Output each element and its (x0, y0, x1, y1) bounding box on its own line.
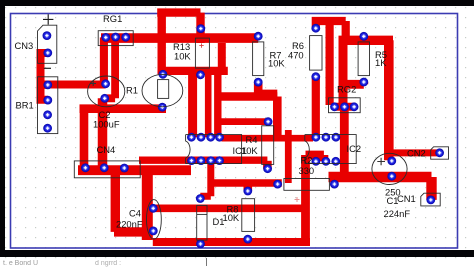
diode D1 outline (197, 205, 207, 240)
bridge BR1 outline (38, 77, 58, 134)
pad R4-2 (263, 164, 272, 173)
connector CN4 body (74, 161, 140, 178)
pad R5-1 (359, 32, 368, 41)
pad R13-1 (196, 24, 205, 33)
wire loop to R4 and IC2 (215, 97, 278, 139)
capacitor C1 outline (372, 153, 407, 184)
connector CN3 outline (38, 25, 57, 63)
pad RG2-2 (340, 102, 349, 111)
wire R13 bottom bus (162, 67, 228, 75)
wire RG2 bus (333, 103, 356, 111)
pad R7-1 (254, 32, 263, 41)
wire R4 bottom leg (263, 161, 272, 169)
pad R6-1 (311, 24, 320, 33)
pad CN2-1 (435, 148, 444, 157)
node tick R1 (91, 81, 97, 86)
svg-text:R4: R4 (246, 134, 258, 145)
wire CN3 to BR1 (41, 53, 48, 100)
pad IC2-b4 (331, 157, 340, 166)
pad RG1-1 (101, 33, 110, 42)
wire V8 to RG2 (339, 40, 348, 107)
pad IC1-t3 (206, 133, 215, 142)
pad R5-2 (359, 78, 368, 87)
pad C4-2 (149, 227, 158, 236)
svg-text:CN4: CN4 (97, 144, 116, 155)
pad IC2-t4 (332, 133, 341, 142)
resistor R6 body (310, 36, 322, 71)
wire IC1 bottom bus (139, 157, 267, 164)
svg-text:BR1: BR1 (16, 100, 34, 111)
resistor R13 body (195, 38, 209, 68)
pad BR1-4 (43, 124, 52, 133)
pad IC2-t3 (322, 133, 331, 142)
resistor R4 body (262, 126, 274, 165)
resistor R7 outline (253, 42, 264, 76)
connector CN1 body (421, 193, 440, 206)
svg-text:220nF: 220nF (116, 219, 143, 230)
node origin marker R13 (199, 43, 203, 47)
capacitor C2 body (142, 74, 183, 106)
pad R1-1 (101, 79, 110, 88)
resistor R8 outline (242, 199, 255, 232)
pot R1 outline (88, 76, 125, 107)
svg-text:10K: 10K (241, 145, 258, 156)
wire V7 down (326, 21, 334, 105)
wire bottom bus (153, 238, 310, 246)
connector RG2 outline (329, 98, 361, 113)
capacitor C2 inner plate (158, 80, 169, 99)
pad IC1-b2 (197, 156, 206, 165)
pad R8-2 (243, 235, 252, 244)
pad CN4-2 (100, 163, 109, 172)
resistor R2 outline (284, 179, 330, 191)
connector CN2 outline (431, 147, 449, 159)
pad IC1-b3 (206, 156, 215, 165)
resistor R6 outline (310, 36, 322, 71)
op-amp U2 IC2 body (305, 135, 356, 164)
capacitor C2 outline (142, 74, 183, 106)
capacitor C1 body (372, 153, 407, 184)
wire R13 top jumper (157, 13, 200, 75)
pad RG1-2 (111, 33, 120, 42)
pad R2-2 (330, 180, 339, 189)
connector CN1 outline (421, 193, 440, 206)
svg-text:C4: C4 (129, 207, 141, 218)
svg-text:330: 330 (299, 165, 315, 176)
node minus CN3 (44, 67, 51, 69)
wire RG1 pin2 to R1 bottom (105, 37, 115, 98)
pad BR1-2 (43, 96, 52, 105)
pad CN1-1 (426, 196, 435, 205)
pad RG1-3 (121, 33, 130, 42)
pad IC1-t2 (197, 133, 206, 142)
svg-text:RG1: RG1 (103, 13, 122, 24)
op-amp U2 IC2 outline (305, 135, 356, 164)
pad C1-2 (387, 172, 396, 181)
wire RG1 pin1 to R1 top (100, 37, 108, 83)
wire R7 bottom leg (254, 82, 277, 94)
pad RG2-3 (350, 102, 359, 111)
pad C1-1 (387, 157, 396, 166)
wire RG2 pin3 down (340, 107, 349, 177)
pad IC1-t1 (187, 133, 196, 142)
wire inner bar to R4 top (218, 118, 268, 125)
resistor R8 body (242, 199, 255, 232)
svg-text:CN3: CN3 (15, 40, 34, 51)
resistor R13 outline (195, 38, 209, 68)
resistor R5 body (358, 42, 369, 76)
wire to IC1 pin4 top (214, 71, 221, 137)
svg-text:d ngrrd :: d ngrrd : (95, 260, 121, 267)
wire to IC1 pin3 top (205, 71, 212, 137)
pad R7-2 (254, 78, 263, 87)
pad D1-2 (196, 240, 205, 249)
wire junction top trace down (218, 43, 226, 71)
pad C2-2 (158, 103, 167, 112)
op-amp U1 IC1 body (186, 135, 242, 164)
connector CN4 outline (74, 161, 140, 178)
wire R5 right vertical (384, 40, 394, 160)
resistor R4 outline (262, 126, 274, 165)
wire to CN4 pin2 (98, 98, 108, 167)
connector CN2 body (431, 147, 449, 159)
pad BR1-3 (43, 110, 52, 119)
wire RG1 bus to R7 (101, 33, 258, 43)
svg-text:t. e Bond U: t. e Bond U (3, 260, 38, 267)
svg-text:10K: 10K (174, 51, 191, 62)
wire C1 bus to CN1 (329, 177, 432, 200)
pad R8-1 (243, 187, 252, 196)
pad CN4-1 (81, 163, 90, 172)
wire to IC1 pin1 (188, 71, 197, 137)
wire to CN2 (389, 149, 440, 156)
resistor R2 body (284, 179, 330, 191)
wire R5 top bus (339, 36, 394, 45)
wire node H2 horizontal (80, 104, 167, 113)
wire IC1 pin4 to IC2 pin1 bus (222, 135, 314, 142)
connector RG1 body (98, 31, 133, 46)
wire R5 bottom leg (345, 82, 364, 84)
pad R1-2 (100, 94, 109, 103)
svg-text:CN1: CN1 (397, 193, 416, 204)
wire CN4 band through C4 to bottom bus (142, 170, 153, 240)
connector CN3 body (38, 25, 57, 63)
svg-text:R1: R1 (126, 85, 138, 96)
pad IC1-t4 (215, 133, 224, 142)
wire R6 top hook (312, 21, 346, 40)
op-amp U1 IC1 outline (186, 135, 242, 164)
pad IC1-b4 (215, 156, 224, 165)
svg-text:IC2: IC2 (347, 143, 362, 154)
wire CN4 to C4 left L (114, 170, 150, 232)
svg-text:224nF: 224nF (384, 208, 411, 219)
diode D1 body (197, 205, 207, 240)
node plus C1 (377, 158, 385, 166)
wire IC1 pin3 to R2 (211, 179, 282, 187)
wire R2 right stub (330, 177, 337, 186)
svg-text:10K: 10K (223, 212, 240, 223)
pad C2-1 (159, 70, 168, 79)
wire BR1 to R1 (44, 81, 106, 89)
resistor R5 outline (358, 42, 369, 76)
svg-text:10K: 10K (268, 58, 285, 69)
wire IC1 pin3 down (200, 161, 211, 198)
pad D1-1 (196, 194, 205, 203)
status text (3, 260, 121, 267)
resistor R7 body (253, 42, 264, 76)
pad CN3-2 (43, 49, 52, 58)
svg-text:470: 470 (288, 50, 304, 61)
pad IC2-t2 (312, 133, 321, 142)
pad R2-1 (273, 180, 282, 189)
pad BR1-1 (43, 81, 52, 90)
pad RG2-1 (330, 102, 339, 111)
wire R8 top leg (244, 184, 253, 191)
svg-text:100uF: 100uF (93, 118, 120, 129)
svg-text:RG2: RG2 (337, 83, 356, 94)
pad IC2-b2 (312, 157, 321, 166)
pot R1 body (88, 76, 125, 107)
diode D1 band (197, 213, 207, 215)
pad IC2-b3 (322, 157, 331, 166)
wire R6 bottom to IC2 (312, 77, 320, 137)
capacitor C4 outline (147, 200, 162, 240)
pad R4-1 (264, 117, 273, 126)
connector RG2 body (329, 98, 361, 113)
wire to CN4 pin1 (80, 109, 89, 168)
pad R6-2 (311, 72, 320, 81)
bridge BR1 body (38, 77, 58, 134)
node plus CN3 (43, 14, 53, 24)
svg-text:CN2: CN2 (407, 147, 426, 158)
connector RG1 outline (98, 31, 133, 46)
capacitor C4 body (147, 200, 162, 240)
wire CN4 bus (78, 165, 191, 175)
wire IC2 down via 330 (306, 155, 324, 242)
svg-text:1K: 1K (375, 57, 387, 68)
wire C4 to D1 to node (153, 205, 306, 213)
pad CN3-1 (43, 31, 52, 40)
pad R13-2 (196, 70, 205, 79)
node DRC marker (295, 197, 300, 202)
pad IC1-b1 (187, 156, 196, 165)
pad C4-1 (149, 204, 158, 213)
wire band to R2 net connector (285, 130, 292, 183)
pad CN4-3 (120, 164, 129, 173)
